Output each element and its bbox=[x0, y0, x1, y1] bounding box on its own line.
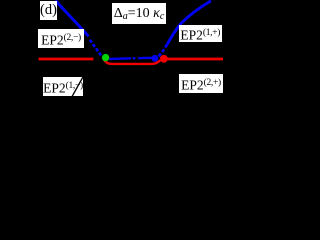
label EP2(2,+) bbox=[179, 74, 223, 93]
blue dashed horizontal segment between EP dots bbox=[109, 58, 151, 59]
red curve right branch bbox=[163, 58, 223, 61]
blue curve left dashed segment near green EP bbox=[90, 40, 101, 56]
blue curve left descending solid branch bbox=[56, 0, 89, 36]
panel label (d) bbox=[40, 1, 57, 20]
label EP2(2,-) bbox=[38, 29, 84, 48]
blue curve right ascending solid branch bbox=[167, 1, 211, 45]
label EP2(1,+) bbox=[179, 25, 223, 42]
red curve upper-left branch bbox=[39, 58, 94, 61]
green EP dot bbox=[102, 54, 109, 61]
red EP dot bbox=[160, 55, 168, 63]
red curve lower dip branch between EPs bbox=[104, 60, 161, 64]
blue EP dot bbox=[151, 55, 158, 62]
blue curve right dashed segment near blue EP bbox=[159, 45, 167, 56]
black pointer line through EP2(1,-) label bbox=[0, 0, 228, 148]
label EP2(1,-) with pointer line bbox=[43, 77, 83, 96]
detuning label Delta_a = 10 kappa_c bbox=[112, 3, 166, 24]
